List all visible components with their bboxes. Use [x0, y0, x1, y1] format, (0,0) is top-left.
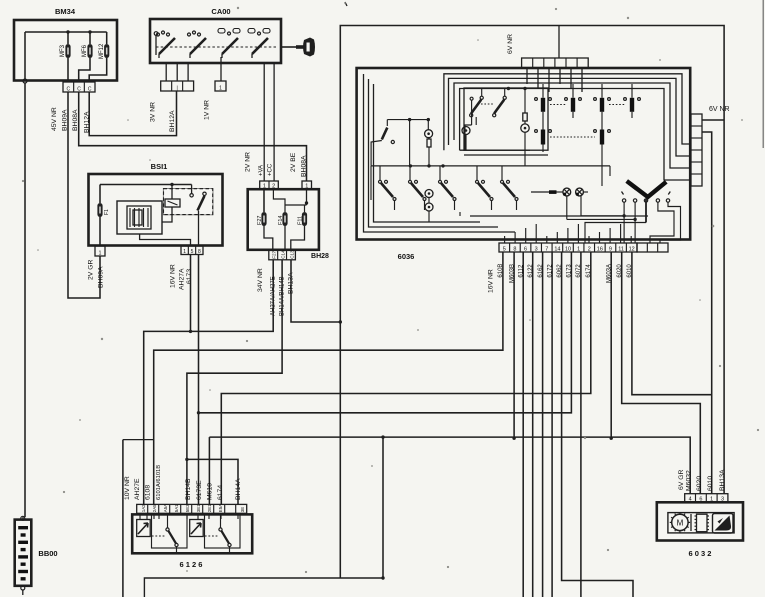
svg-text:AH27A: AH27A [179, 268, 186, 290]
svg-text:BH14B: BH14B [185, 478, 192, 500]
svg-text:BH13A: BH13A [719, 469, 726, 491]
svg-text:5E3: 5E3 [185, 504, 190, 512]
svg-text:F11: F11 [298, 216, 304, 225]
svg-text:6 1 2 6: 6 1 2 6 [180, 560, 203, 569]
svg-text:6036: 6036 [398, 252, 415, 261]
svg-text:2A5: 2A5 [152, 504, 157, 512]
svg-text:MF12: MF12 [99, 43, 105, 59]
svg-text:1: 1 [219, 85, 222, 91]
svg-text:A5A: A5A [163, 504, 168, 512]
svg-text:1: 1 [263, 183, 266, 189]
svg-text:2V GR: 2V GR [88, 260, 95, 280]
svg-text:+VA: +VA [259, 165, 265, 176]
svg-text:6173: 6173 [186, 269, 193, 284]
svg-text:3: 3 [535, 246, 538, 252]
svg-text:1A2: 1A2 [141, 504, 146, 512]
svg-text:14: 14 [554, 246, 560, 252]
svg-text:F1: F1 [104, 209, 110, 215]
svg-text:C: C [67, 86, 71, 92]
svg-text:3: 3 [721, 497, 724, 503]
svg-text:2V NR: 2V NR [245, 152, 252, 172]
svg-text:8: 8 [198, 249, 201, 255]
svg-text:1: 1 [183, 249, 186, 255]
svg-text:3E: 3E [240, 507, 245, 512]
svg-text:2: 2 [272, 183, 275, 189]
svg-text:AH27E: AH27E [134, 478, 141, 500]
svg-text:BSI1: BSI1 [151, 162, 168, 171]
svg-text:1: 1 [710, 497, 713, 503]
svg-text:9: 9 [609, 246, 612, 252]
svg-text:3E1: 3E1 [196, 504, 201, 512]
svg-text:10: 10 [565, 246, 571, 252]
svg-text:BH28: BH28 [311, 253, 329, 260]
svg-text:5: 5 [503, 246, 506, 252]
svg-text:BH12A: BH12A [169, 110, 176, 132]
svg-text:F27: F27 [257, 216, 263, 225]
svg-text:M6032: M6032 [686, 470, 693, 491]
svg-text:1: 1 [99, 250, 102, 256]
svg-text:MF3: MF3 [60, 44, 66, 57]
svg-text:45V NR: 45V NR [51, 107, 58, 131]
svg-text:2: 2 [588, 246, 591, 252]
svg-text:6 0 3 2: 6 0 3 2 [689, 549, 712, 558]
svg-text:7: 7 [545, 246, 548, 252]
svg-text:16V NR: 16V NR [488, 269, 495, 293]
svg-text:1: 1 [305, 183, 308, 189]
svg-text:M610: M610 [207, 483, 214, 500]
svg-text:34V NR: 34V NR [257, 268, 264, 292]
svg-text:3V NR: 3V NR [150, 102, 157, 122]
svg-text:BH14A: BH14A [235, 478, 242, 500]
svg-text:6V NR: 6V NR [709, 106, 730, 113]
svg-text:6: 6 [524, 246, 527, 252]
svg-text:11: 11 [618, 246, 624, 252]
svg-text:6108: 6108 [145, 485, 152, 500]
svg-text:5A1: 5A1 [174, 504, 179, 512]
svg-text:1: 1 [577, 246, 580, 252]
svg-text:1V NR: 1V NR [204, 100, 211, 120]
svg-text:BH09A: BH09A [98, 266, 105, 288]
svg-text:CA00: CA00 [211, 7, 230, 16]
svg-text:8: 8 [513, 246, 516, 252]
svg-text:6V GR: 6V GR [678, 470, 685, 490]
svg-text:6010: 6010 [707, 476, 714, 491]
svg-text:|: | [176, 85, 177, 91]
svg-text:C: C [88, 86, 92, 92]
svg-text:5: 5 [191, 249, 194, 255]
svg-text:BH08A: BH08A [301, 155, 308, 177]
svg-text:2E1: 2E1 [207, 504, 212, 512]
svg-text:4: 4 [689, 497, 692, 503]
svg-text:16V NR: 16V NR [170, 264, 177, 288]
svg-text:6101A/6101B: 6101A/6101B [156, 465, 162, 500]
svg-text:F27: F27 [272, 250, 277, 258]
svg-text:12: 12 [629, 246, 635, 252]
svg-text:C: C [77, 86, 81, 92]
svg-text:+CC: +CC [268, 163, 274, 176]
svg-text:6020: 6020 [696, 476, 703, 491]
svg-text:16: 16 [597, 246, 603, 252]
svg-text:MF6: MF6 [82, 44, 88, 57]
svg-text:6: 6 [699, 497, 702, 503]
svg-text:C14: C14 [281, 250, 286, 259]
svg-text:BB00: BB00 [38, 549, 57, 558]
svg-text:10V NR: 10V NR [124, 476, 131, 500]
svg-text:6173E: 6173E [196, 480, 203, 500]
svg-text:M: M [677, 519, 684, 528]
svg-text:2V BE: 2V BE [290, 152, 297, 172]
svg-text:F14: F14 [278, 216, 284, 225]
svg-text:BM34: BM34 [55, 7, 76, 16]
svg-text:C13: C13 [290, 250, 295, 259]
svg-text:E5A: E5A [218, 504, 223, 512]
svg-text:6174: 6174 [217, 485, 224, 500]
svg-text:6V NR: 6V NR [507, 34, 514, 54]
